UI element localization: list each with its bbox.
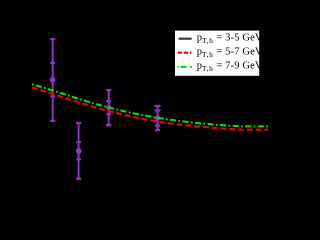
- legend sample: green dash-dot line (7-9 GeV): [177, 66, 191, 68]
- data point P1 error bar inner caps: [50, 63, 55, 97]
- data point P1 error bar outer: [50, 39, 55, 121]
- legend box: [175, 31, 259, 76]
- data point P3 marker: [76, 148, 82, 154]
- data point P4 error bar outer: [154, 106, 160, 130]
- red dashed curve pT,h = 5-7 GeV: [32, 87, 268, 129]
- green dash-dot curve pT,h = 7-9 GeV: [32, 84, 268, 126]
- data point P2 error bar outer: [106, 90, 111, 125]
- legend sample: black solid line (3-5 GeV): [179, 38, 192, 40]
- data point P2 marker: [106, 105, 111, 110]
- data point P3 error bar outer: [76, 123, 81, 179]
- data point P4 error bar inner caps: [155, 111, 161, 126]
- data point P1 marker: [50, 77, 56, 83]
- data point P4 marker: [155, 115, 160, 120]
- legend sample: red dashed line (5-7 GeV): [178, 52, 192, 54]
- data point P2 error bar inner caps: [106, 101, 111, 114]
- data point P3 error bar inner caps: [76, 142, 81, 159]
